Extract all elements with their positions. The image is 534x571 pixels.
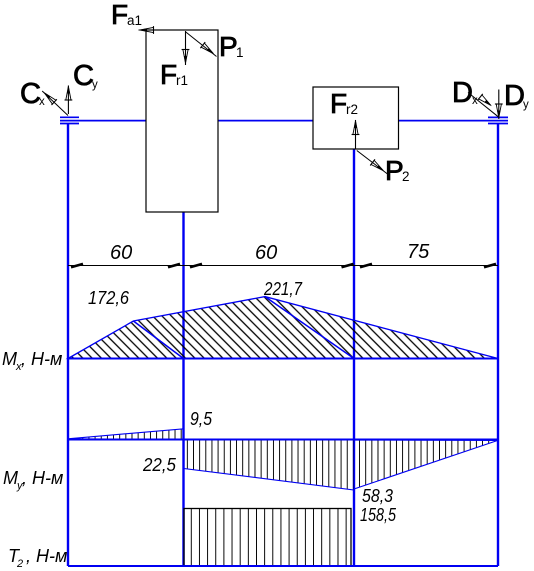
svg-text:x: x <box>472 95 478 107</box>
svg-text:172,6: 172,6 <box>88 288 130 308</box>
My middle trapezoid (negative) <box>184 440 354 490</box>
svg-text:221,7: 221,7 <box>263 279 303 299</box>
svg-text:C: C <box>20 78 41 110</box>
svg-text:75: 75 <box>407 241 430 263</box>
force P2 arrow <box>357 151 388 175</box>
svg-text:M: M <box>2 349 17 369</box>
svg-text:2: 2 <box>16 558 23 570</box>
svg-text:9,5: 9,5 <box>190 409 213 429</box>
Mx inner ordinate line 2 <box>265 297 354 359</box>
force Fa1 arrow <box>139 26 167 34</box>
force Fr1 arrow <box>182 31 190 65</box>
svg-text:58,3: 58,3 <box>362 486 393 506</box>
Tz baseline <box>68 565 498 567</box>
support C (bearing symbol) <box>60 117 79 123</box>
svg-text:, Н-м: , Н-м <box>26 546 67 566</box>
wire shaft axis right segment <box>399 120 509 122</box>
svg-text:22,5: 22,5 <box>142 455 177 475</box>
svg-text:a1: a1 <box>127 13 142 28</box>
svg-text:60: 60 <box>255 242 277 264</box>
svg-text:, Н-м: , Н-м <box>22 468 63 488</box>
Mx inner ordinate line 1 <box>133 321 183 359</box>
svg-text:C: C <box>73 60 94 92</box>
dim ticks at gear2 <box>342 264 354 267</box>
svg-text:M: M <box>3 468 18 488</box>
svg-text:, Н-м: , Н-м <box>21 349 62 369</box>
reaction Dx arrow <box>468 93 498 117</box>
svg-text:r2: r2 <box>346 102 358 117</box>
My baseline <box>68 439 498 441</box>
svg-text:D: D <box>452 77 473 109</box>
dim ticks at gear1 <box>168 264 180 267</box>
svg-text:x: x <box>39 96 45 108</box>
svg-text:D: D <box>504 80 525 112</box>
gear 1 body <box>146 30 218 212</box>
support D (bearing symbol) <box>488 117 508 123</box>
svg-text:y: y <box>523 99 529 111</box>
svg-text:60: 60 <box>110 242 132 264</box>
svg-text:1: 1 <box>236 45 244 60</box>
node line at gear2 (x=354) <box>353 149 355 566</box>
svg-text:158,5: 158,5 <box>360 505 397 525</box>
svg-text:P: P <box>219 31 238 62</box>
node line at support C (x=68) <box>67 124 69 566</box>
reaction Cy arrow <box>65 85 73 114</box>
reaction Dy arrow <box>495 90 503 120</box>
svg-text:F: F <box>160 59 177 90</box>
svg-text:y: y <box>92 79 98 91</box>
My right triangle (negative) <box>354 440 498 489</box>
wire shaft axis middle segment <box>218 120 313 122</box>
Mx hatched polygon <box>68 297 498 359</box>
Tz hatched rectangle <box>184 509 351 567</box>
node line at support D (x=498) <box>497 124 499 566</box>
svg-text:r1: r1 <box>176 73 188 88</box>
dim tick at C <box>71 264 83 267</box>
reaction Cx arrow <box>41 89 68 116</box>
force P1 arrow <box>186 32 217 58</box>
wire shaft axis left segment <box>60 120 146 122</box>
svg-text:F: F <box>330 88 347 119</box>
Mx baseline <box>68 358 498 360</box>
dim tick at D <box>484 264 496 267</box>
node line at gear1 (x=183.5) <box>182 212 184 566</box>
force Fr2 arrow <box>352 120 360 150</box>
My left triangle (positive) <box>68 429 184 440</box>
svg-text:2: 2 <box>402 169 410 184</box>
svg-text:F: F <box>111 0 128 30</box>
gear 2 body <box>313 87 399 149</box>
wire dimension line <box>68 265 498 267</box>
svg-text:P: P <box>385 155 404 186</box>
